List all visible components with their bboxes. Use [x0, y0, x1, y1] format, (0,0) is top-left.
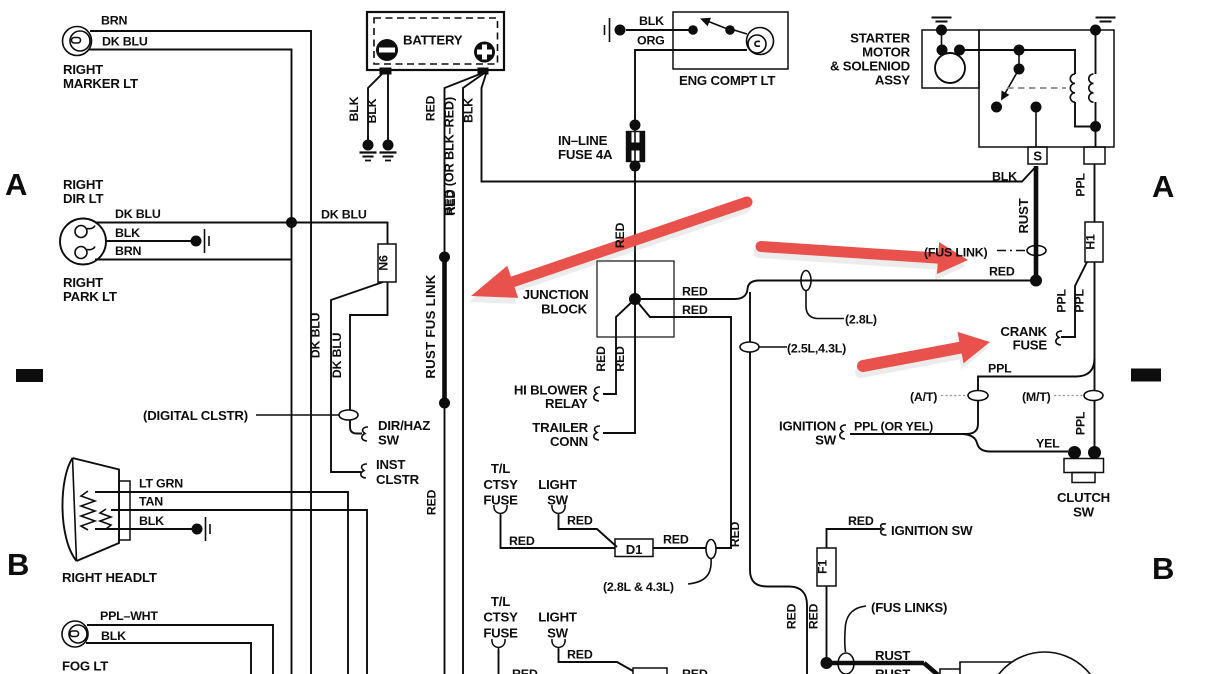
- svg-text:RED: RED: [567, 648, 593, 662]
- svg-text:RED: RED: [848, 514, 874, 528]
- svg-text:RED: RED: [425, 489, 439, 515]
- svg-text:YEL: YEL: [1036, 437, 1060, 451]
- svg-text:RIGHT: RIGHT: [63, 62, 103, 77]
- svg-text:DK BLU: DK BLU: [330, 332, 344, 378]
- svg-text:RELAY: RELAY: [545, 396, 588, 411]
- svg-text:BLK: BLK: [639, 14, 664, 28]
- svg-text:PPL: PPL: [1074, 411, 1088, 435]
- svg-text:IN–LINE: IN–LINE: [558, 133, 608, 148]
- svg-text:RED: RED: [663, 533, 689, 547]
- svg-text:STARTER: STARTER: [850, 31, 911, 46]
- svg-text:RED: RED: [567, 514, 593, 528]
- svg-text:SW: SW: [1073, 505, 1095, 520]
- svg-text:RED: RED: [594, 346, 608, 372]
- svg-text:BLK: BLK: [101, 629, 126, 643]
- svg-text:N6: N6: [377, 255, 391, 271]
- svg-text:RED: RED: [613, 346, 627, 372]
- svg-text:BLK: BLK: [139, 514, 164, 528]
- svg-text:PPL: PPL: [1073, 289, 1087, 313]
- svg-text:SW: SW: [815, 433, 837, 448]
- svg-text:RED: RED: [682, 667, 708, 674]
- svg-text:IGNITION: IGNITION: [779, 419, 836, 434]
- svg-text:LT GRN: LT GRN: [139, 477, 183, 491]
- svg-text:BRN: BRN: [101, 14, 127, 28]
- svg-text:(A/T): (A/T): [910, 390, 937, 404]
- svg-text:B: B: [1152, 551, 1174, 586]
- svg-text:BLOCK: BLOCK: [541, 302, 588, 317]
- svg-text:TAN: TAN: [139, 495, 163, 509]
- svg-text:INST: INST: [376, 457, 405, 472]
- svg-text:(M/T): (M/T): [1022, 390, 1051, 404]
- svg-text:RIGHT: RIGHT: [63, 275, 103, 290]
- svg-text:(FUS LINKS): (FUS LINKS): [871, 600, 947, 615]
- svg-text:RUST FUS LINK: RUST FUS LINK: [423, 274, 438, 378]
- svg-text:DK BLU: DK BLU: [321, 208, 367, 222]
- svg-text:DK BLU: DK BLU: [115, 207, 161, 221]
- svg-text:DK BLU: DK BLU: [102, 35, 148, 49]
- svg-text:CTSY: CTSY: [483, 477, 518, 492]
- svg-text:SW: SW: [547, 493, 569, 508]
- svg-text:IGNITION SW: IGNITION SW: [891, 523, 973, 538]
- svg-text:T/L: T/L: [491, 594, 510, 609]
- svg-text:ORG: ORG: [637, 34, 665, 48]
- svg-text:BRN: BRN: [115, 244, 141, 258]
- svg-text:SW: SW: [547, 626, 569, 641]
- svg-text:PPL–WHT: PPL–WHT: [100, 609, 158, 623]
- svg-text:(2.8L & 4.3L): (2.8L & 4.3L): [603, 580, 674, 594]
- svg-text:D1: D1: [626, 542, 642, 557]
- svg-text:DIR LT: DIR LT: [63, 191, 103, 206]
- svg-text:CLSTR: CLSTR: [376, 472, 420, 487]
- svg-text:RUST: RUST: [1016, 198, 1031, 233]
- svg-text:ASSY: ASSY: [875, 73, 911, 88]
- svg-text:PPL: PPL: [988, 362, 1012, 376]
- svg-text:DIR/HAZ: DIR/HAZ: [378, 418, 430, 433]
- svg-text:MARKER LT: MARKER LT: [63, 76, 138, 91]
- svg-text:RED: RED: [682, 303, 708, 317]
- svg-text:RED: RED: [807, 603, 821, 629]
- svg-text:RED: RED: [728, 521, 742, 547]
- svg-text:FOG LT: FOG LT: [62, 659, 108, 674]
- svg-text:RIGHT: RIGHT: [63, 177, 103, 192]
- svg-text:BLK: BLK: [347, 96, 361, 121]
- svg-text:CONN: CONN: [550, 434, 588, 449]
- svg-text:FUSE 4A: FUSE 4A: [558, 147, 613, 162]
- svg-text:BLK: BLK: [115, 226, 140, 240]
- svg-text:RED: RED: [613, 222, 627, 248]
- svg-text:BLK: BLK: [992, 170, 1017, 184]
- svg-text:RED: RED: [785, 603, 799, 629]
- svg-text:MOTOR: MOTOR: [862, 45, 911, 60]
- svg-text:PARK LT: PARK LT: [63, 289, 117, 304]
- svg-text:RUST: RUST: [875, 667, 910, 674]
- svg-text:PPL: PPL: [1055, 289, 1069, 313]
- svg-text:F1: F1: [816, 560, 830, 574]
- svg-text:FUSE: FUSE: [483, 493, 518, 508]
- svg-text:RED: RED: [424, 95, 438, 121]
- svg-text:PPL: PPL: [1074, 173, 1088, 197]
- svg-text:RED: RED: [682, 285, 708, 299]
- svg-text:RUST: RUST: [875, 648, 910, 663]
- svg-text:PPL (OR YEL): PPL (OR YEL): [854, 420, 933, 434]
- svg-text:A: A: [5, 167, 27, 202]
- svg-text:T/L: T/L: [491, 461, 510, 476]
- svg-text:(DIGITAL CLSTR): (DIGITAL CLSTR): [143, 408, 248, 423]
- svg-text:DK BLU: DK BLU: [309, 312, 323, 358]
- svg-text:RED: RED: [444, 189, 458, 215]
- svg-text:RIGHT HEADLT: RIGHT HEADLT: [62, 570, 157, 585]
- svg-text:CTSY: CTSY: [483, 610, 518, 625]
- svg-text:(2.8L): (2.8L): [845, 313, 877, 327]
- svg-text:A: A: [1152, 169, 1174, 204]
- svg-text:RED: RED: [509, 534, 535, 548]
- svg-text:FUSE: FUSE: [483, 626, 518, 641]
- svg-text:& SOLENIOD: & SOLENIOD: [830, 59, 910, 74]
- svg-text:RED: RED: [512, 667, 538, 674]
- svg-text:CLUTCH: CLUTCH: [1057, 490, 1110, 505]
- svg-text:RED: RED: [989, 265, 1015, 279]
- svg-text:H1: H1: [1084, 234, 1098, 250]
- svg-text:TRAILER: TRAILER: [532, 420, 588, 435]
- svg-text:ENG COMPT LT: ENG COMPT LT: [679, 73, 775, 88]
- svg-text:BLK: BLK: [365, 98, 379, 123]
- svg-text:JUNCTION: JUNCTION: [523, 287, 589, 302]
- svg-text:S: S: [1033, 149, 1042, 164]
- svg-text:B: B: [7, 547, 29, 582]
- svg-text:BLK: BLK: [462, 98, 476, 123]
- svg-text:SW: SW: [378, 433, 400, 448]
- svg-text:LIGHT: LIGHT: [538, 610, 577, 625]
- svg-text:(FUS LINK): (FUS LINK): [924, 246, 987, 260]
- svg-text:LIGHT: LIGHT: [538, 477, 577, 492]
- svg-text:BATTERY: BATTERY: [403, 33, 463, 48]
- svg-text:FUSE: FUSE: [1013, 338, 1048, 353]
- svg-text:(2.5L,4.3L): (2.5L,4.3L): [787, 342, 846, 356]
